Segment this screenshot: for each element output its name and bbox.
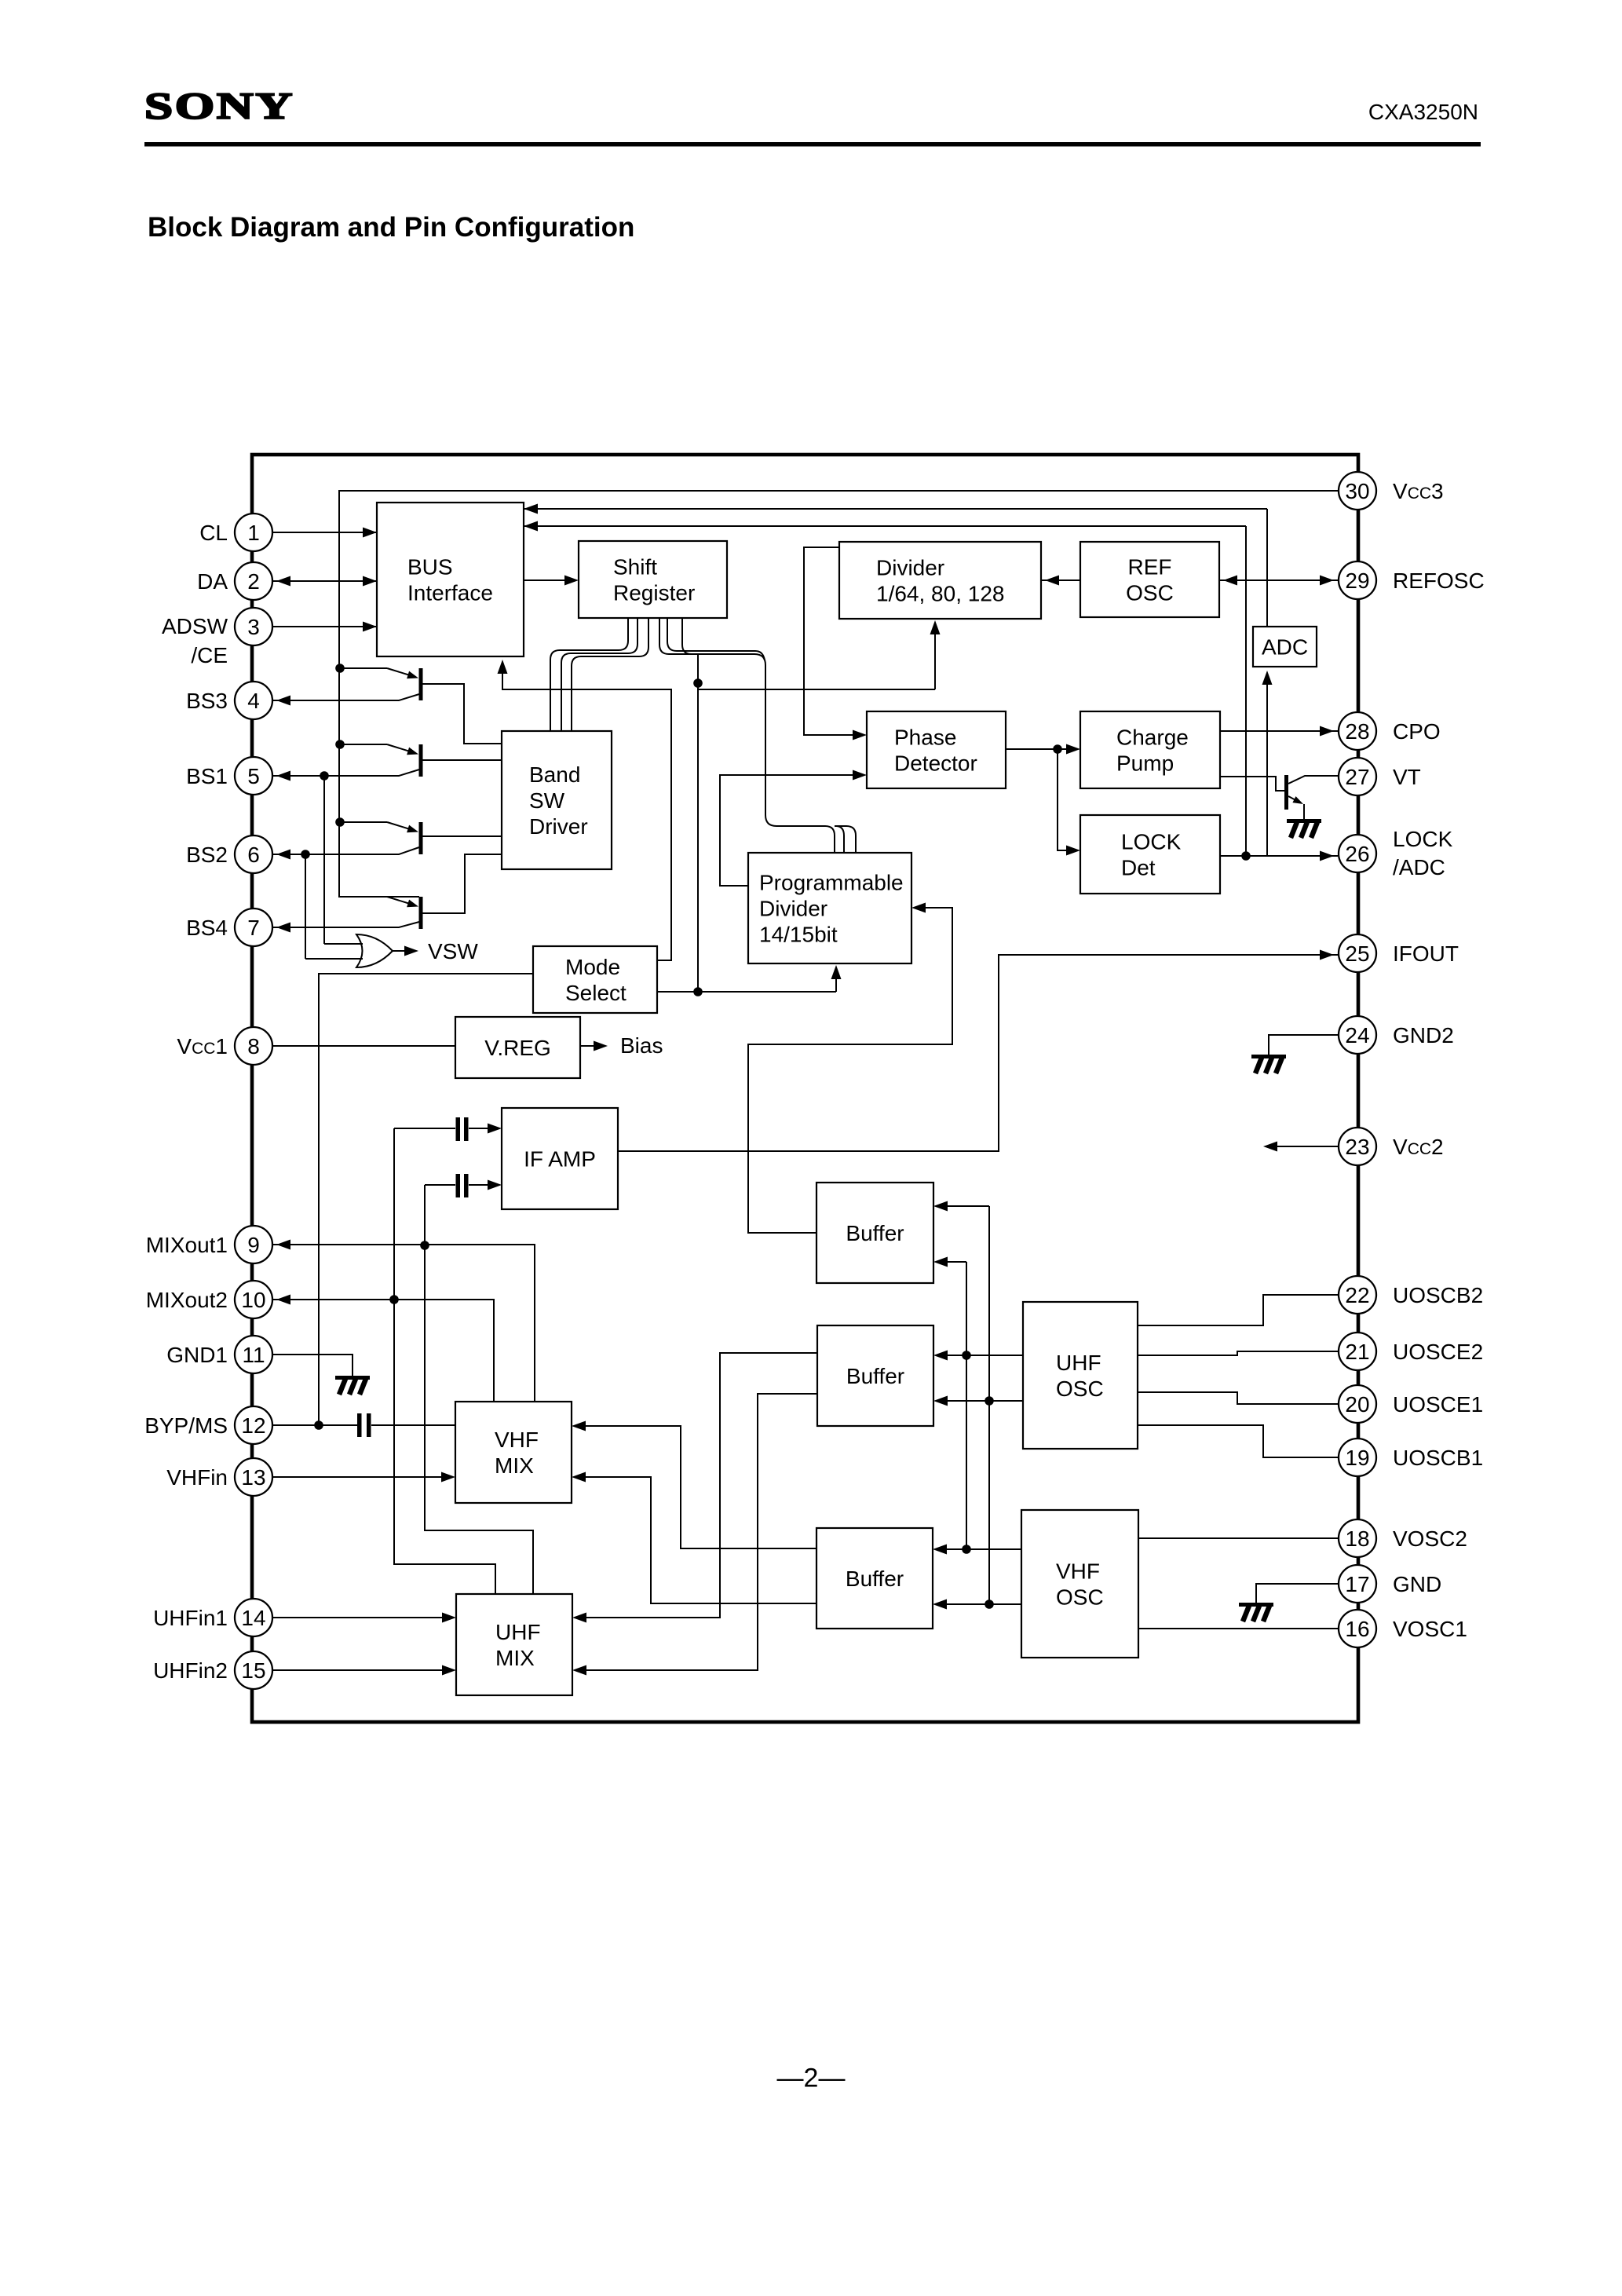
svg-text:UOSCE2: UOSCE2 xyxy=(1393,1340,1483,1364)
arrowhead into BUS xyxy=(363,528,377,538)
pin 23 circle xyxy=(1339,1128,1376,1165)
wire Buffer to UHF MIX LO1 xyxy=(584,1353,817,1618)
OR gate G1 (VSW) xyxy=(356,934,393,967)
arrowhead into BUS Interface xyxy=(524,504,538,514)
arrowhead into Divider bottom xyxy=(930,620,941,634)
svg-text:VHF: VHF xyxy=(1056,1559,1100,1584)
svg-text:Programmable: Programmable xyxy=(759,871,904,895)
wire UHFin2 pin15 to UHF MIX xyxy=(272,1669,444,1671)
wire IF AMP output to pin25 IFOUT xyxy=(618,955,1338,1151)
block IF AMP xyxy=(502,1108,618,1209)
pin 30 circle xyxy=(1339,472,1376,510)
arrowhead into BUS xyxy=(363,576,377,587)
wire UHF OSC to pin19 UOSCB1 xyxy=(1138,1425,1339,1457)
svg-text:15: 15 xyxy=(241,1658,265,1683)
transistor Q5 base bar (VT) xyxy=(1284,775,1288,810)
svg-text:OSC: OSC xyxy=(1126,581,1174,605)
wire shift bit to Band SW Driver xyxy=(561,618,637,731)
svg-text:22: 22 xyxy=(1345,1283,1369,1307)
OR gate bottom input xyxy=(305,958,363,960)
wire VHF OSC to Buffer B3 in2 xyxy=(944,1603,1021,1605)
arrowhead into Phase Detector xyxy=(853,770,867,781)
wire drop into Programmable Divider xyxy=(825,826,835,853)
arrowhead into Buffer B1 xyxy=(933,1201,948,1212)
junction osc net A end xyxy=(962,1545,971,1554)
svg-text:UHFin1: UHFin1 xyxy=(153,1606,228,1630)
OR gate top input xyxy=(324,943,363,945)
svg-text:Block Diagram and Pin Configur: Block Diagram and Pin Configuration xyxy=(148,212,634,243)
ground symbol below Q5 xyxy=(1287,819,1321,838)
arrowhead into pin9 xyxy=(276,1240,290,1250)
pin 13 circle xyxy=(235,1458,272,1496)
transistor Q4 (BS4 driver) xyxy=(340,897,423,929)
svg-text:Buffer: Buffer xyxy=(846,1364,904,1388)
svg-text:/ADC: /ADC xyxy=(1393,855,1445,879)
pin 24 circle xyxy=(1339,1016,1376,1054)
wire BYP/MS pin12 to C3 xyxy=(272,1424,357,1426)
wire osc net to Buffer B1 in2 xyxy=(945,1261,966,1263)
arrowhead into UHF MIX xyxy=(442,1613,456,1623)
svg-text:9: 9 xyxy=(247,1233,260,1257)
svg-text:IFOUT: IFOUT xyxy=(1393,941,1459,966)
capacitor C1 xyxy=(456,1117,461,1141)
block UHF OSC xyxy=(1023,1302,1138,1449)
svg-text:Interface: Interface xyxy=(407,581,493,605)
arrowhead into pin7 BS4 xyxy=(276,923,290,933)
wire Phase Detector to Charge Pump xyxy=(1006,748,1069,750)
wire GND stub pin17 xyxy=(1256,1584,1338,1603)
svg-text:VSW: VSW xyxy=(428,939,478,963)
svg-text:Charge: Charge xyxy=(1116,726,1189,750)
wire GND2 stub xyxy=(1269,1035,1338,1055)
svg-text:Buffer: Buffer xyxy=(846,1567,904,1591)
svg-text:REF: REF xyxy=(1128,555,1172,579)
svg-text:1/64, 80, 128: 1/64, 80, 128 xyxy=(876,582,1004,606)
junction on rail for Q2 xyxy=(335,740,345,749)
pin 6 circle xyxy=(235,835,272,873)
arrowhead into UHF MIX xyxy=(572,1665,586,1676)
OR gate output wire xyxy=(393,950,405,952)
wire pin6 junction down to OR gate input xyxy=(305,854,306,959)
svg-text:VOSC1: VOSC1 xyxy=(1393,1617,1467,1641)
wire shift bit to Band SW Driver xyxy=(550,618,628,731)
block Programmable Divider 14/15bit xyxy=(748,853,911,963)
wire UHF OSC to pin21 UOSCE2 xyxy=(1138,1351,1339,1355)
wire Charge Pump to pin28 CPO xyxy=(1220,730,1338,732)
junction BYP/MS to Mode Select xyxy=(314,1420,323,1430)
svg-text:MIXout1: MIXout1 xyxy=(146,1233,228,1257)
svg-text:SW: SW xyxy=(529,788,565,813)
Q5 emitter slant xyxy=(1288,796,1299,803)
svg-text:GND: GND xyxy=(1393,1572,1441,1596)
wire up to C1 xyxy=(393,1128,395,1300)
svg-text:Mode: Mode xyxy=(565,955,620,979)
arrowhead into Buffer B2 xyxy=(933,1351,948,1361)
svg-text:7: 7 xyxy=(247,916,260,940)
pin 4 circle xyxy=(235,682,272,719)
Q4 collector to Band SW Driver xyxy=(422,854,502,913)
wire Vcc3 pin30 to internal bus rail xyxy=(339,491,1339,897)
pin 8 circle xyxy=(235,1027,272,1065)
wire Vcc1 pin8 to V.REG xyxy=(272,1045,455,1047)
wire Charge Pump to Q5 base xyxy=(1220,777,1284,791)
svg-text:UOSCB1: UOSCB1 xyxy=(1393,1446,1483,1470)
junction osc net B end xyxy=(985,1600,994,1609)
arrowhead into pin28 xyxy=(1320,726,1334,737)
wire UHF OSC to pin22 UOSCB2 xyxy=(1138,1295,1339,1325)
svg-text:UOSCB2: UOSCB2 xyxy=(1393,1283,1483,1307)
wire shift bit merging right xyxy=(667,618,765,660)
arrowhead into Charge Pump xyxy=(1066,744,1080,755)
svg-text:VHFin: VHFin xyxy=(166,1465,228,1490)
IC outline frame xyxy=(252,455,1358,1722)
svg-text:28: 28 xyxy=(1345,719,1369,744)
wire Buffer to VHF MIX LO1 xyxy=(583,1426,816,1548)
wire to C1 xyxy=(394,1128,455,1129)
wire VHF OSC to pin18 VOSC2 xyxy=(1138,1537,1339,1539)
svg-text:Buffer: Buffer xyxy=(846,1221,904,1245)
pin 16 circle xyxy=(1339,1610,1376,1647)
svg-text:UOSCE1: UOSCE1 xyxy=(1393,1392,1483,1417)
wire Vcc2 pin23 xyxy=(1273,1146,1338,1147)
svg-text:2: 2 xyxy=(247,569,260,594)
arrowhead into ADC bottom xyxy=(1262,671,1273,685)
wire drop into Programmable Divider xyxy=(846,826,856,853)
block UHF MIX xyxy=(456,1594,572,1695)
vertical osc net A xyxy=(966,1262,967,1549)
Q5 emitter arrow xyxy=(1292,796,1303,804)
Q1 emitter to pin4 xyxy=(272,694,419,700)
arrowhead into Buffer B1 xyxy=(933,1257,948,1267)
wire CL pin1 to BUS Interface xyxy=(272,532,377,533)
pin 27 circle xyxy=(1339,758,1376,795)
block Buffer B3 xyxy=(816,1528,933,1629)
pin 21 circle xyxy=(1339,1333,1376,1370)
svg-text:BS1: BS1 xyxy=(186,764,228,788)
arrowhead into Divider xyxy=(1045,576,1059,586)
arrowhead into Shift Register xyxy=(564,576,579,586)
arrowhead VSW output xyxy=(404,946,418,956)
wire C3 to VHF MIX xyxy=(371,1424,455,1426)
wire DA pin2 to BUS Interface xyxy=(272,580,377,582)
Q5 emitter to ground xyxy=(1303,804,1305,819)
arrowhead into BUS Interface bottom xyxy=(498,660,508,674)
wire pin5 junction down to OR gate input xyxy=(323,776,325,944)
svg-text:10: 10 xyxy=(241,1288,265,1312)
wire down to LOCK/ADC net xyxy=(1245,526,1247,856)
arrowhead into pin2 (bidirectional DA) xyxy=(276,576,290,587)
Q4 emitter to pin7 xyxy=(272,922,419,927)
arrowhead into Programmable Divider bottom xyxy=(831,965,842,979)
svg-text:11: 11 xyxy=(242,1343,265,1367)
arrowhead into VHF MIX xyxy=(572,1472,586,1483)
wire Divider output to Phase Detector xyxy=(804,547,855,735)
svg-text:CL: CL xyxy=(199,521,228,545)
capacitor C2 xyxy=(456,1174,461,1197)
pin 18 circle xyxy=(1339,1519,1376,1557)
arrowhead into Buffer B2 xyxy=(933,1396,948,1406)
svg-text:24: 24 xyxy=(1345,1023,1369,1047)
svg-text:23: 23 xyxy=(1345,1135,1369,1159)
wire shift bus right to Programmable Divider xyxy=(659,618,825,826)
block Phase Detector xyxy=(867,711,1006,788)
block Buffer B1 xyxy=(816,1183,933,1283)
wire MIXout2 net to UHF MIX xyxy=(394,1300,495,1594)
arrowhead into BUS Interface xyxy=(524,521,538,532)
wire VHF MIX to pin9 MIXout1 xyxy=(272,1245,535,1402)
block V.REG xyxy=(455,1017,580,1078)
header rule xyxy=(144,142,1481,147)
wire VHF OSC to pin16 VOSC1 xyxy=(1138,1628,1339,1629)
svg-text:MIX: MIX xyxy=(495,1646,535,1670)
svg-text:21: 21 xyxy=(1345,1340,1369,1364)
svg-text:BS4: BS4 xyxy=(186,916,228,940)
svg-text:VOSC2: VOSC2 xyxy=(1393,1526,1467,1551)
wire Mode Select output xyxy=(657,991,836,993)
transistor Q1 (BS3 driver) xyxy=(340,668,423,700)
wire up into Divider bottom xyxy=(934,630,936,689)
svg-text:CXA3250N: CXA3250N xyxy=(1368,100,1478,124)
svg-text:Detector: Detector xyxy=(894,751,977,776)
wire VHF OSC to Buffer B3 in1 xyxy=(944,1548,1021,1550)
svg-text:Shift: Shift xyxy=(613,555,657,579)
svg-text:OSC: OSC xyxy=(1056,1377,1104,1401)
wire REF OSC to Divider xyxy=(1041,579,1080,581)
svg-text:Divider: Divider xyxy=(876,556,944,580)
wire ADC to BUS data xyxy=(524,508,1267,510)
svg-text:DA: DA xyxy=(197,569,228,594)
wire UHF OSC to Buffer B2 in2 xyxy=(945,1400,1023,1402)
svg-text:26: 26 xyxy=(1345,842,1369,866)
svg-text:BS3: BS3 xyxy=(186,689,228,713)
wire REFOSC pin29 to REF OSC xyxy=(1219,579,1338,581)
svg-text:GND2: GND2 xyxy=(1393,1023,1454,1047)
block LOCK Det xyxy=(1080,815,1220,894)
ground symbol GND1 xyxy=(335,1376,370,1395)
pin 3 circle xyxy=(235,608,272,645)
arrowhead into UHF MIX xyxy=(572,1613,586,1623)
pin 5 circle xyxy=(235,757,272,795)
svg-text:Det: Det xyxy=(1121,856,1156,880)
arrowhead into pin10 xyxy=(276,1295,290,1305)
block ADC xyxy=(1253,627,1317,667)
arrowhead Vcc2 feed xyxy=(1263,1142,1277,1152)
wire Buffer feedback to Programmable Divider xyxy=(748,908,952,1233)
svg-text:GND1: GND1 xyxy=(166,1343,228,1367)
arrowhead into VHF MIX xyxy=(441,1472,455,1483)
svg-text:16: 16 xyxy=(1345,1617,1369,1641)
arrowhead into BUS xyxy=(363,622,377,632)
block Shift Register xyxy=(579,541,727,618)
junction MIXout2 net xyxy=(389,1295,399,1304)
pin 29 circle xyxy=(1339,561,1376,599)
pin 26 circle xyxy=(1339,835,1376,872)
svg-text:13: 13 xyxy=(241,1465,265,1490)
junction LOCK/ADC net xyxy=(1241,851,1251,861)
svg-text:4: 4 xyxy=(247,689,260,713)
junction on rail for Q3 xyxy=(335,817,345,827)
svg-text:14/15bit: 14/15bit xyxy=(759,923,838,947)
block BUS Interface xyxy=(377,503,524,656)
transistor Q3 (BS2 driver) xyxy=(340,822,423,854)
pin 15 circle xyxy=(235,1651,272,1689)
wire LOCK to BUS data xyxy=(524,525,1246,527)
arrowhead into Buffer B3 xyxy=(933,1545,947,1555)
arrowhead into pin4 BS3 xyxy=(276,696,290,706)
wire Buffer to UHF MIX LO2 xyxy=(584,1394,817,1670)
svg-text:ADC: ADC xyxy=(1262,635,1308,660)
wire Buffer to VHF MIX LO2 xyxy=(583,1477,816,1603)
svg-text:8: 8 xyxy=(247,1034,260,1058)
wire mode bus vertical xyxy=(697,654,699,992)
pin 12 circle xyxy=(235,1406,272,1444)
wire VHF MIX to pin10 MIXout2 xyxy=(272,1300,494,1402)
svg-text:BYP/MS: BYP/MS xyxy=(144,1413,228,1438)
arrowhead Bias xyxy=(594,1041,608,1051)
wire UHF OSC to Buffer B2 in1 xyxy=(945,1355,1023,1356)
arrowhead into IF AMP xyxy=(488,1180,502,1190)
pin 1 circle xyxy=(235,514,272,551)
block Buffer B2 xyxy=(817,1325,933,1426)
Q5 collector to pin27 VT xyxy=(1288,776,1338,784)
svg-text:Phase: Phase xyxy=(894,726,956,750)
Q2 emitter to pin5 xyxy=(272,770,419,776)
svg-text:19: 19 xyxy=(1345,1446,1369,1470)
wire MIXout1 net to UHF MIX xyxy=(425,1245,533,1594)
pin 25 circle xyxy=(1339,934,1376,972)
svg-text:V.REG: V.REG xyxy=(484,1036,551,1060)
svg-text:Band: Band xyxy=(529,762,580,787)
junction mode output xyxy=(693,987,703,996)
svg-text:Pump: Pump xyxy=(1116,751,1174,776)
svg-text:20: 20 xyxy=(1345,1392,1369,1417)
svg-text:30: 30 xyxy=(1345,479,1369,503)
svg-text:CPO: CPO xyxy=(1393,719,1441,744)
junction on vertical xyxy=(693,678,703,688)
wire BUS to Shift Register xyxy=(524,579,567,581)
svg-text:VHF: VHF xyxy=(495,1428,539,1452)
wire shift bit merging right xyxy=(682,618,692,654)
svg-text:17: 17 xyxy=(1345,1572,1369,1596)
svg-text:SONY: SONY xyxy=(144,86,294,127)
wire down into ADC top xyxy=(1266,509,1268,628)
pin 10 circle xyxy=(235,1281,272,1318)
Q2 collector to Band SW Driver xyxy=(422,759,502,761)
capacitor C3 xyxy=(357,1413,362,1437)
svg-text:Driver: Driver xyxy=(529,814,588,839)
svg-text:UHF: UHF xyxy=(1056,1351,1101,1375)
svg-text:Bias: Bias xyxy=(620,1033,663,1058)
wire osc net to Buffer B1 in1 xyxy=(945,1205,989,1207)
wire LOCK Det to pin26 xyxy=(1220,855,1338,857)
pin 7 circle xyxy=(235,909,272,946)
svg-text:Select: Select xyxy=(565,981,627,1005)
svg-text:Register: Register xyxy=(613,581,695,605)
block Divider 1/64,80,128 xyxy=(839,542,1041,619)
Q1 collector to Band SW Driver xyxy=(422,684,502,744)
svg-text:Divider: Divider xyxy=(759,897,827,921)
wire up to Programmable Divider xyxy=(835,974,837,992)
arrowhead into Buffer B3 xyxy=(933,1600,947,1610)
arrowhead into LOCK Det xyxy=(1066,846,1080,856)
block Charge Pump xyxy=(1080,711,1220,788)
svg-text:UHFin2: UHFin2 xyxy=(153,1658,228,1683)
svg-text:1: 1 xyxy=(247,521,260,545)
svg-text:25: 25 xyxy=(1345,941,1369,966)
junction on pin5 wire xyxy=(320,771,329,781)
block VHF MIX xyxy=(455,1402,572,1503)
svg-text:6: 6 xyxy=(247,843,260,867)
svg-text:BUS: BUS xyxy=(407,555,453,579)
wire UHFin1 pin14 to UHF MIX xyxy=(272,1617,444,1618)
svg-text:27: 27 xyxy=(1345,765,1369,789)
arrowhead into pin6 BS2 xyxy=(276,850,290,860)
svg-text:LOCK: LOCK xyxy=(1393,827,1453,851)
arrowhead into IF AMP xyxy=(488,1124,502,1134)
pin 11 circle xyxy=(235,1336,272,1373)
ground symbol GND2 xyxy=(1251,1055,1286,1073)
svg-text:MIX: MIX xyxy=(495,1453,534,1478)
wire to LOCK Det xyxy=(1058,749,1069,850)
wire to Divider control xyxy=(698,689,935,690)
svg-text:MIXout2: MIXout2 xyxy=(146,1288,228,1312)
wire Mode Select input from BYP/MS xyxy=(319,974,533,1425)
svg-text:3: 3 xyxy=(247,615,260,639)
transistor Q2 (BS1 driver) xyxy=(340,744,423,777)
arrowhead into VHF MIX xyxy=(572,1421,586,1431)
arrowhead into REF OSC xyxy=(1223,576,1237,586)
svg-text:5: 5 xyxy=(247,764,260,788)
Q3 collector to Band SW Driver xyxy=(422,835,502,837)
pin 20 circle xyxy=(1339,1385,1376,1423)
svg-text:OSC: OSC xyxy=(1056,1585,1104,1610)
arrowhead into pin29 xyxy=(1320,576,1334,586)
pin 19 circle xyxy=(1339,1439,1376,1476)
svg-text:—2—: —2— xyxy=(777,2063,846,2093)
svg-text:/CE: /CE xyxy=(191,643,228,667)
wire to C2 xyxy=(425,1184,455,1186)
block VHF OSC xyxy=(1021,1510,1138,1658)
wire Mode Select to BUS Interface xyxy=(502,669,671,960)
arrowhead into Programmable Divider right xyxy=(911,903,926,913)
block Mode Select xyxy=(533,946,657,1013)
arrowhead into pin5 BS1 xyxy=(276,771,290,781)
svg-text:LOCK: LOCK xyxy=(1121,830,1182,854)
arrowhead into pin26 xyxy=(1320,851,1334,861)
junction phase output xyxy=(1053,744,1062,754)
wire UHF OSC to pin20 UOSCE1 xyxy=(1138,1392,1339,1404)
arrowhead into pin25 xyxy=(1320,950,1334,960)
junction on rail for Q1 xyxy=(335,664,345,673)
block REF OSC xyxy=(1080,542,1219,617)
pin 2 circle xyxy=(235,562,272,600)
wire GND1 stub xyxy=(272,1355,353,1376)
pin 17 circle xyxy=(1339,1565,1376,1603)
wire VHFin pin13 to VHF MIX xyxy=(272,1476,444,1478)
svg-text:UHF: UHF xyxy=(495,1620,541,1644)
junction osc net A xyxy=(962,1351,971,1360)
wire pin26 net up to ADC xyxy=(1266,675,1268,856)
svg-text:IF AMP: IF AMP xyxy=(524,1147,596,1172)
svg-text:12: 12 xyxy=(241,1413,265,1438)
wire V.REG Bias output xyxy=(580,1045,594,1047)
junction MIXout1 net xyxy=(420,1241,429,1250)
wire C1 to IF AMP xyxy=(469,1128,490,1129)
pin 14 circle xyxy=(235,1599,272,1636)
svg-text:18: 18 xyxy=(1345,1526,1369,1551)
arrowhead into UHF MIX xyxy=(442,1665,456,1676)
svg-text:BS2: BS2 xyxy=(186,843,228,867)
